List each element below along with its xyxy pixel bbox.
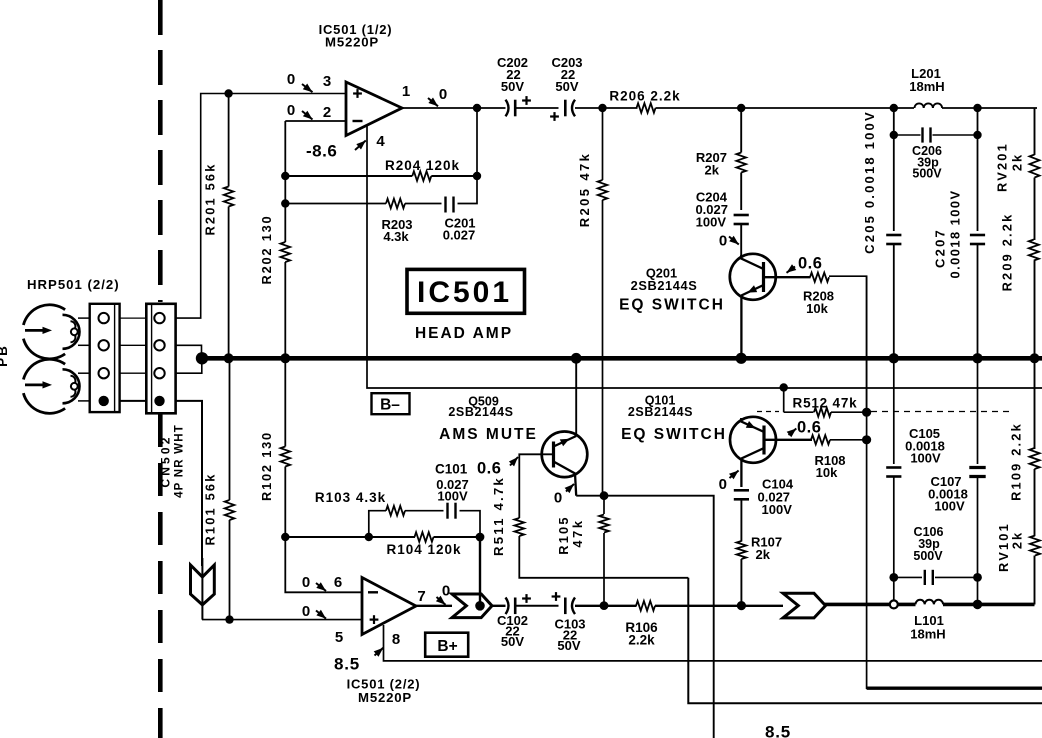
capacitor C102 22/50V bbox=[506, 594, 531, 614]
svg-text:6: 6 bbox=[334, 574, 342, 591]
resistor R102 130 bbox=[281, 358, 291, 537]
label HRP501 bbox=[27, 277, 120, 292]
svg-text:0: 0 bbox=[719, 476, 727, 493]
svg-text:R109 2.2k: R109 2.2k bbox=[1009, 422, 1024, 501]
pin number 8 bbox=[392, 631, 400, 648]
svg-text:HEAD AMP: HEAD AMP bbox=[415, 325, 513, 342]
label R201 bbox=[203, 162, 218, 235]
svg-text:2.2k: 2.2k bbox=[628, 633, 655, 648]
resistor R512 47k bbox=[784, 408, 872, 417]
label R101 bbox=[203, 472, 218, 545]
wire C106 branch bbox=[894, 576, 922, 578]
label Q201 bbox=[631, 266, 698, 294]
svg-text:8.5: 8.5 bbox=[334, 655, 360, 674]
svg-text:3: 3 bbox=[323, 73, 331, 90]
wire R103 branch bbox=[369, 511, 386, 537]
resistor R105 47k bbox=[599, 496, 609, 610]
label C106 bbox=[913, 525, 943, 563]
label R109 bbox=[1009, 422, 1024, 501]
label IC501 HEAD AMP box bbox=[407, 269, 525, 342]
label R206 bbox=[609, 89, 680, 104]
wire chevron to C102 bbox=[490, 605, 506, 607]
ground bus (thick) bbox=[196, 352, 1042, 364]
svg-text:2k: 2k bbox=[1010, 531, 1025, 549]
resistor R106 2.2k bbox=[636, 601, 783, 611]
capacitor C202 22/50V bbox=[506, 96, 531, 116]
label C206 bbox=[912, 144, 942, 181]
svg-text:C207: C207 bbox=[933, 228, 948, 268]
label C105 bbox=[905, 426, 945, 466]
label C201 bbox=[443, 216, 476, 243]
voltage 0 at pin 3 bbox=[287, 71, 313, 92]
label R207 bbox=[696, 150, 727, 178]
svg-text:C205 0.0018 100V: C205 0.0018 100V bbox=[862, 110, 877, 254]
voltage 0 at pin 2 bbox=[287, 102, 313, 120]
label B- box bbox=[372, 393, 410, 414]
label R107 bbox=[751, 535, 782, 563]
svg-text:IC501: IC501 bbox=[417, 276, 512, 309]
label R203 bbox=[381, 217, 412, 244]
resistor RV201 2k bbox=[1030, 155, 1040, 241]
svg-text:8: 8 bbox=[392, 631, 400, 648]
resistor R103 4.3k bbox=[386, 506, 444, 516]
svg-text:R201 56k: R201 56k bbox=[203, 162, 218, 235]
label PB bbox=[0, 344, 10, 367]
capacitor C201 0.027 bbox=[446, 108, 478, 213]
wire inverting input column bbox=[284, 121, 286, 242]
svg-text:R204 120k: R204 120k bbox=[385, 158, 460, 173]
label AMS MUTE bbox=[439, 426, 538, 443]
wire pin4 signal (lower channel) bbox=[176, 401, 202, 566]
svg-text:RV201: RV201 bbox=[995, 142, 1010, 192]
svg-text:0: 0 bbox=[442, 583, 450, 600]
label IC501 (1/2) bbox=[319, 22, 393, 50]
svg-text:18mH: 18mH bbox=[909, 79, 944, 94]
label CN502 bbox=[159, 424, 186, 498]
svg-text:-8.6: -8.6 bbox=[306, 142, 337, 161]
label C202 bbox=[497, 55, 528, 94]
label Q509 bbox=[448, 395, 513, 420]
resistor R201 56k bbox=[224, 94, 234, 359]
wire Q509 collector to bus bbox=[575, 358, 577, 436]
wire bottom thick rail bbox=[867, 687, 1042, 690]
resistor R206 2.2k bbox=[637, 103, 746, 113]
label R202 bbox=[259, 215, 274, 285]
wire C206 branch bbox=[894, 134, 921, 136]
label EQ SWITCH (upper) bbox=[619, 297, 725, 314]
label R103 bbox=[315, 490, 386, 505]
svg-text:2SB2144S: 2SB2144S bbox=[628, 405, 693, 419]
svg-text:2k: 2k bbox=[705, 163, 720, 178]
svg-text:R101 56k: R101 56k bbox=[203, 472, 218, 545]
wire pin3 to ground bus bbox=[176, 360, 202, 373]
svg-text:100V: 100V bbox=[910, 451, 941, 466]
svg-text:500V: 500V bbox=[913, 549, 943, 563]
capacitor C106 39p/500V bbox=[925, 570, 978, 585]
resistor R101 56k bbox=[225, 358, 235, 624]
svg-text:0: 0 bbox=[302, 574, 310, 591]
wire R206 to L201 bbox=[741, 104, 914, 112]
op-amp IC501 (1/2) bbox=[346, 82, 402, 136]
capacitor C103 22/50V bbox=[552, 592, 575, 614]
label IC501 (2/2) bbox=[347, 677, 421, 706]
wire R512 tap bbox=[780, 383, 788, 412]
svg-text:18mH: 18mH bbox=[910, 627, 945, 642]
label RV201 bbox=[995, 142, 1025, 192]
svg-text:2SB2144S: 2SB2144S bbox=[448, 405, 513, 419]
pin number 6 bbox=[334, 574, 342, 591]
label R108 bbox=[814, 453, 845, 480]
svg-text:0: 0 bbox=[302, 603, 310, 620]
wire connector row1 bbox=[120, 317, 147, 319]
label R208 bbox=[803, 289, 834, 317]
resistor R108 10k bbox=[811, 435, 871, 444]
pin number 5 bbox=[335, 629, 343, 646]
svg-text:AMS MUTE: AMS MUTE bbox=[439, 426, 538, 443]
wire connector row3 bbox=[120, 372, 147, 374]
svg-text:7: 7 bbox=[417, 588, 425, 605]
svg-text:PB: PB bbox=[0, 344, 10, 367]
svg-text:CN502: CN502 bbox=[159, 434, 173, 487]
wire pin8 to B+ rail bbox=[384, 625, 1042, 661]
dashed net stub left bbox=[757, 411, 779, 413]
svg-text:R202 130: R202 130 bbox=[259, 215, 274, 285]
transistor Q201 bbox=[730, 254, 811, 359]
svg-text:R102 130: R102 130 bbox=[259, 431, 274, 501]
label R104 bbox=[386, 542, 461, 557]
pin number 7 bbox=[417, 588, 425, 605]
label C104 bbox=[758, 477, 794, 518]
label R106 bbox=[625, 620, 658, 648]
resistor R203 4.3k bbox=[386, 199, 442, 209]
capacitor C101 0.027/100V bbox=[448, 503, 481, 537]
wire C103 to R106 bbox=[575, 605, 637, 607]
svg-text:R104 120k: R104 120k bbox=[386, 542, 461, 557]
wire head to connector pin2 bbox=[78, 344, 90, 346]
svg-text:0: 0 bbox=[439, 86, 447, 103]
svg-text:0: 0 bbox=[287, 102, 295, 119]
voltage 0 at pin 1 bbox=[428, 86, 447, 106]
signal chevron (lower channel output) bbox=[783, 593, 826, 618]
label C107 bbox=[928, 474, 968, 514]
inductor L201 18mH bbox=[915, 103, 982, 112]
wire C202-C203 bbox=[516, 107, 559, 109]
wire R203 branch bbox=[281, 199, 386, 207]
voltage 8.5 bottom rail bbox=[765, 723, 791, 738]
capacitor C204 0.027/100V bbox=[734, 215, 749, 255]
transistor Q509 bbox=[542, 432, 588, 496]
label Q101 bbox=[628, 394, 693, 419]
voltage 0.6 at Q509 base bbox=[477, 457, 518, 478]
svg-text:50V: 50V bbox=[555, 79, 578, 94]
voltage 0 at Q509 emitter bbox=[554, 484, 574, 507]
pin number 2 bbox=[323, 104, 331, 121]
svg-text:M5220P: M5220P bbox=[358, 690, 412, 705]
pin number 3 bbox=[323, 73, 331, 90]
wire feedback drop at chevron bbox=[479, 593, 481, 606]
label C103 bbox=[554, 617, 585, 654]
label C101 bbox=[435, 462, 469, 504]
wire connector row4 bbox=[120, 400, 147, 402]
svg-text:R209 2.2k: R209 2.2k bbox=[1000, 213, 1015, 292]
resistor R109 2.2k bbox=[1030, 448, 1040, 536]
voltage 0 at Q101 collector bbox=[719, 471, 739, 494]
svg-text:100V: 100V bbox=[696, 215, 727, 230]
label R105 bbox=[556, 515, 585, 554]
voltage 0 at pin 5 bbox=[302, 603, 326, 620]
svg-text:EQ SWITCH: EQ SWITCH bbox=[619, 297, 725, 314]
resistor RV101 2k bbox=[1030, 536, 1040, 605]
label R512 bbox=[793, 396, 858, 411]
capacitor C205 0.0018/100V bbox=[886, 108, 901, 358]
svg-text:0.6: 0.6 bbox=[797, 419, 821, 437]
wire R108/R512 junction column bbox=[867, 276, 1042, 688]
label R209 bbox=[1000, 213, 1015, 292]
signal chevron at output bbox=[452, 594, 492, 618]
wire Q509 base bbox=[519, 454, 553, 518]
resistor R511 4.7k bbox=[515, 518, 689, 578]
label L201 bbox=[909, 66, 944, 94]
voltage 0.6 at Q201 base bbox=[787, 255, 823, 273]
svg-text:B–: B– bbox=[380, 397, 400, 414]
board boundary dashed line (upper) bbox=[158, 0, 163, 302]
svg-text:R206 2.2k: R206 2.2k bbox=[609, 89, 680, 104]
wire top right corner bbox=[978, 108, 1038, 155]
svg-text:5: 5 bbox=[335, 629, 343, 646]
capacitor C105 0.0018/100V bbox=[886, 358, 901, 600]
svg-text:100V: 100V bbox=[762, 502, 793, 517]
wire op-amp2 output bbox=[416, 605, 452, 607]
svg-text:R512 47k: R512 47k bbox=[793, 396, 858, 411]
wire pin5 input bbox=[202, 619, 362, 621]
svg-text:4: 4 bbox=[376, 133, 385, 150]
wire R511 to lower rail bbox=[688, 578, 1042, 704]
connector CN502 bbox=[146, 304, 175, 414]
resistor R207 2k bbox=[736, 108, 746, 210]
capacitor C207 0.0018/100V bbox=[970, 108, 985, 358]
svg-text:R105: R105 bbox=[556, 515, 571, 554]
svg-text:C101: C101 bbox=[435, 462, 468, 477]
voltage -8.6 at pin 4 bbox=[306, 141, 366, 161]
wire lower feedback node bbox=[281, 533, 415, 541]
svg-text:2SB2144S: 2SB2144S bbox=[631, 278, 698, 293]
inductor L101 18mH bbox=[916, 600, 1035, 610]
wire pin1 to opamp input (node A) bbox=[176, 89, 346, 318]
resistor R208 10k bbox=[810, 273, 867, 413]
label C102 bbox=[497, 613, 528, 649]
open junction at C105 bbox=[890, 600, 898, 608]
svg-text:10k: 10k bbox=[816, 465, 838, 480]
svg-text:50V: 50V bbox=[557, 638, 580, 653]
wire feedback node bbox=[281, 172, 412, 180]
tape head HRP501 upper coil bbox=[23, 305, 79, 359]
svg-text:100V: 100V bbox=[934, 499, 965, 514]
svg-text:50V: 50V bbox=[501, 634, 524, 649]
op-amp IC501 (2/2) bbox=[362, 578, 416, 635]
voltage 0 at pin 6 bbox=[302, 574, 326, 591]
signal chevron (lower channel input) bbox=[191, 558, 215, 620]
wire head to connector pin3 bbox=[78, 372, 90, 374]
wire Q509 emitter line bbox=[576, 491, 714, 738]
svg-text:B+: B+ bbox=[437, 638, 457, 655]
label RV101 bbox=[996, 522, 1025, 572]
svg-text:1: 1 bbox=[402, 83, 410, 100]
svg-text:0: 0 bbox=[287, 71, 295, 88]
label B+ box bbox=[425, 633, 468, 657]
board boundary dashed line (lower) bbox=[158, 414, 163, 738]
resistor R209 2.2k bbox=[1029, 240, 1039, 359]
wire op-amp output bbox=[402, 104, 506, 112]
svg-text:2k: 2k bbox=[756, 547, 771, 562]
wire head to connector pin1 bbox=[78, 317, 90, 319]
wire chevron to L101 bbox=[825, 603, 916, 607]
dashed net stub right bbox=[871, 411, 1014, 413]
wire connector row2 bbox=[120, 344, 147, 346]
svg-text:HRP501 (2/2): HRP501 (2/2) bbox=[27, 277, 120, 292]
label R205 bbox=[577, 152, 592, 228]
label C203 bbox=[551, 55, 582, 94]
svg-text:8.5: 8.5 bbox=[765, 723, 791, 738]
resistor R204 120k bbox=[412, 171, 481, 181]
transistor Q101 bbox=[730, 417, 812, 487]
voltage 0.6 at Q101 base bbox=[787, 419, 822, 438]
label L101 bbox=[910, 613, 945, 642]
svg-text:0: 0 bbox=[719, 233, 727, 250]
resistor R104 120k bbox=[415, 532, 485, 542]
svg-text:4.3k: 4.3k bbox=[383, 229, 409, 244]
label C205 bbox=[862, 110, 877, 254]
wire pin6 input bbox=[285, 537, 362, 592]
wire pin2 to ground bus bbox=[176, 345, 202, 356]
wire head to connector pin4 bbox=[78, 400, 90, 402]
wire right edge mid bbox=[1034, 358, 1036, 449]
wire feedback to output node bbox=[479, 537, 481, 606]
capacitor C206 39p/500V bbox=[923, 127, 982, 142]
svg-text:EQ SWITCH: EQ SWITCH bbox=[621, 426, 727, 443]
svg-text:0.6: 0.6 bbox=[477, 460, 501, 478]
wire C102-C103 bbox=[516, 605, 559, 607]
pin number 4 bbox=[376, 133, 385, 150]
capacitor C107 0.0018/100V bbox=[969, 358, 985, 604]
resistor R107 2k bbox=[737, 541, 747, 610]
label R102 bbox=[259, 431, 274, 501]
junction at output chevron bbox=[475, 601, 485, 611]
label R204 bbox=[385, 158, 460, 173]
svg-text:10k: 10k bbox=[806, 301, 828, 316]
voltage 8.5 at pin 8 bbox=[334, 648, 383, 674]
label C204 bbox=[695, 190, 728, 230]
svg-text:0.0018 100V: 0.0018 100V bbox=[948, 189, 963, 278]
capacitor C104 0.027/100V bbox=[734, 490, 749, 541]
label EQ SWITCH (lower) bbox=[621, 426, 727, 443]
connector plug (head side) bbox=[90, 304, 120, 412]
voltage 0 at Q201 collector bbox=[719, 233, 739, 250]
pin number 1 bbox=[402, 83, 410, 100]
resistor R205 47k bbox=[598, 108, 608, 496]
svg-text:500V: 500V bbox=[912, 167, 942, 181]
svg-text:100V: 100V bbox=[437, 489, 468, 504]
svg-text:4P NR WHT: 4P NR WHT bbox=[174, 424, 186, 498]
voltage 0 at pin 7 bbox=[436, 583, 450, 605]
svg-text:47k: 47k bbox=[570, 518, 585, 547]
wire pin2 input bbox=[285, 120, 346, 122]
resistor R202 130 bbox=[281, 242, 291, 358]
svg-text:2k: 2k bbox=[1010, 153, 1025, 171]
svg-text:R511 4.7k: R511 4.7k bbox=[491, 476, 506, 556]
wire C203 to R206 bbox=[575, 104, 638, 112]
svg-text:50V: 50V bbox=[501, 79, 524, 94]
capacitor C203 22/50V bbox=[550, 100, 575, 121]
label C207 bbox=[933, 189, 963, 278]
svg-text:R103 4.3k: R103 4.3k bbox=[315, 490, 386, 505]
svg-text:R205 47k: R205 47k bbox=[577, 152, 592, 228]
label R511 bbox=[491, 476, 506, 556]
svg-text:0.6: 0.6 bbox=[798, 255, 822, 273]
svg-text:2: 2 bbox=[323, 104, 331, 121]
tape head HRP501 lower coil bbox=[23, 359, 79, 413]
svg-text:0.027: 0.027 bbox=[443, 228, 476, 243]
wire pin4 to B- rail bbox=[367, 125, 1042, 388]
svg-text:0: 0 bbox=[554, 490, 562, 507]
svg-text:M5220P: M5220P bbox=[325, 35, 379, 50]
